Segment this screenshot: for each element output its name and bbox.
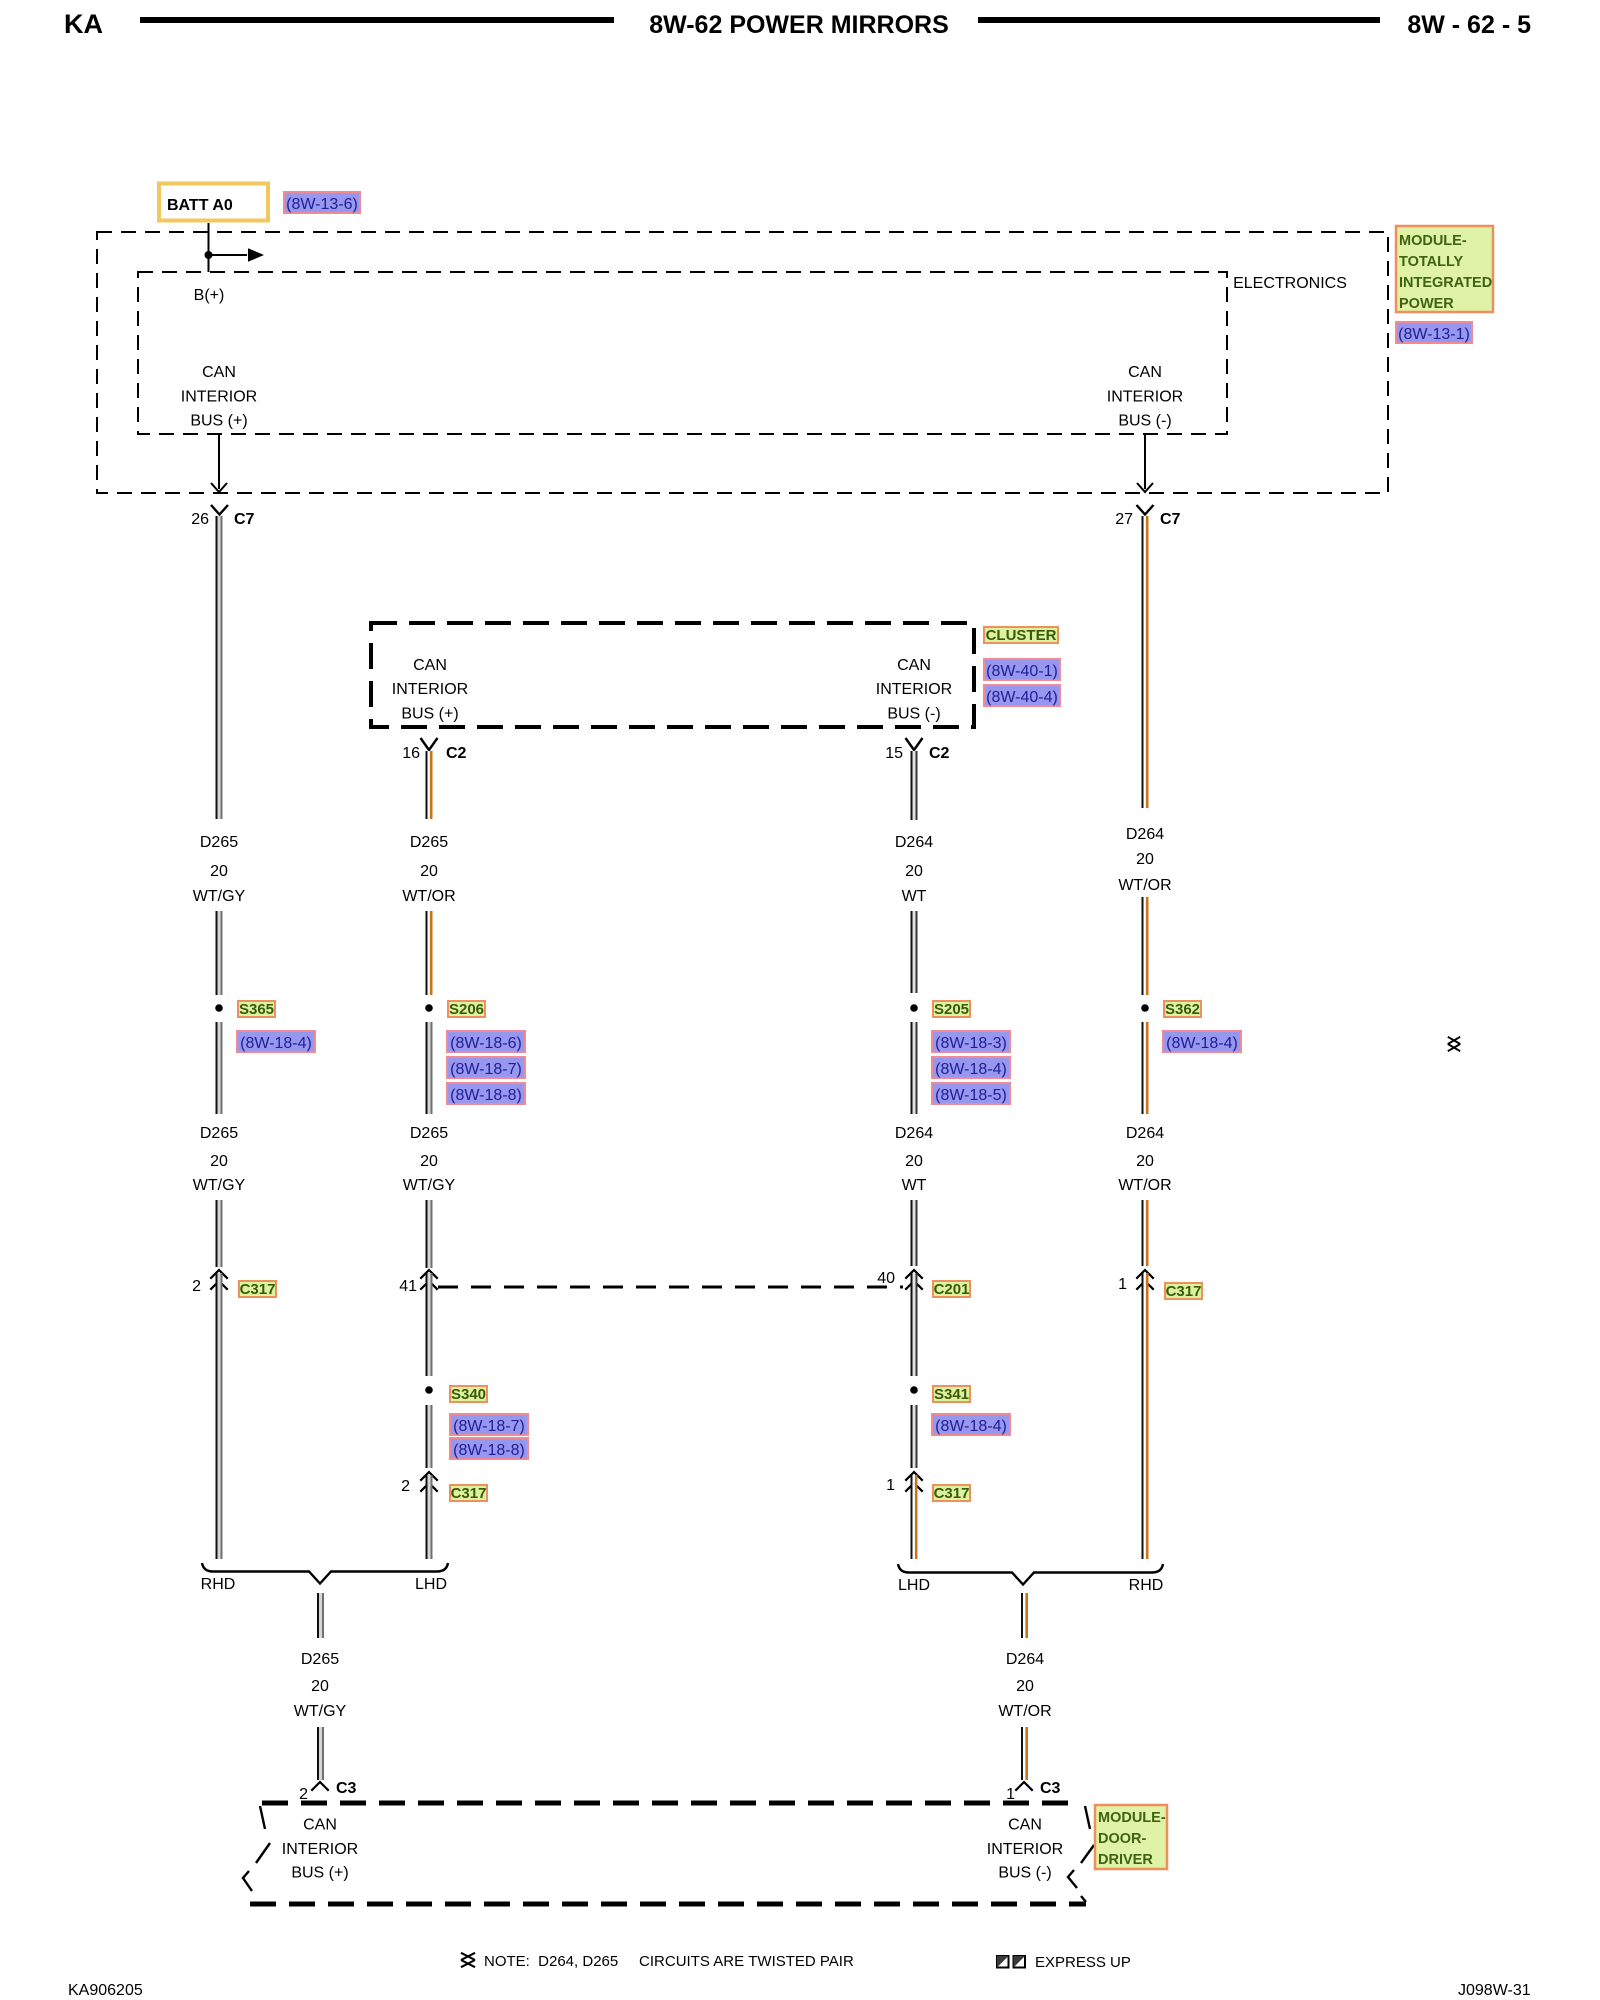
wire label D265 20 WT/GY col1 upper: [193, 834, 246, 905]
wire D264 WT col3 seg6: [911, 1405, 918, 1468]
svg-text:DRIVER: DRIVER: [1098, 1852, 1153, 1868]
svg-text:C3: C3: [336, 1780, 357, 1797]
svg-text:INTERIOR: INTERIOR: [181, 389, 257, 406]
wire label D265 20 WT/GY merged: [294, 1651, 347, 1720]
connector label C317 col1: [239, 1281, 276, 1298]
splice S205 node: [910, 1004, 918, 1012]
svg-text:C317: C317: [451, 1485, 487, 1502]
wire D265 WT/GY col2 seg6: [426, 1405, 433, 1468]
svg-text:BUS (+): BUS (+): [291, 1865, 348, 1882]
net label CAN INTERIOR BUS (+) TIPM: [181, 364, 257, 430]
svg-text:RHD: RHD: [1129, 1577, 1164, 1594]
connector C201 pin 41: [420, 1270, 437, 1290]
splice label S341: [933, 1386, 970, 1403]
svg-text:C317: C317: [934, 1485, 970, 1502]
bracket LHD/RHD merge right: [898, 1564, 1163, 1585]
svg-text:S205: S205: [934, 1001, 969, 1018]
svg-text:CLUSTER: CLUSTER: [986, 627, 1057, 644]
wire D265 WT/GY col1 seg2: [216, 911, 223, 995]
wire label D264 20 WT col3 upper: [895, 834, 933, 905]
wire D265 WT/GY col1 seg1: [216, 516, 223, 819]
arrow CAN bus (+) exit TIPM: [211, 434, 227, 492]
dashed connector line C201 pin41 to pin40: [438, 1286, 903, 1289]
wire D265 WT/GY merged seg1: [317, 1593, 324, 1638]
svg-text:CAN: CAN: [1128, 364, 1162, 381]
module door-driver torn left edge: [243, 1806, 270, 1891]
splice label S362: [1164, 1001, 1201, 1018]
svg-text:(8W-18-3): (8W-18-3): [935, 1035, 1007, 1052]
svg-text:EXPRESS UP: EXPRESS UP: [1035, 1954, 1131, 1971]
svg-text:(8W-18-4): (8W-18-4): [1166, 1035, 1238, 1052]
splice S341 node: [910, 1386, 918, 1394]
svg-text:WT/OR: WT/OR: [1118, 877, 1171, 894]
wire D264 WT/OR col3 seg7: [911, 1475, 918, 1559]
reference label (8W-18-4) S205: [932, 1057, 1010, 1078]
wire D264 WT col3 seg4: [911, 1200, 918, 1266]
reference label (8W-18-8) S206: [447, 1083, 525, 1104]
splice S362 node: [1141, 1004, 1149, 1012]
svg-text:20: 20: [905, 1153, 923, 1170]
module CLUSTER dashed box: [371, 623, 974, 727]
wire D265 WT/GY merged seg2: [317, 1727, 324, 1780]
svg-text:41: 41: [399, 1278, 417, 1295]
svg-text:(8W-18-8): (8W-18-8): [450, 1087, 522, 1104]
svg-text:1: 1: [1006, 1786, 1015, 1803]
header rule right: [978, 17, 1380, 23]
twisted pair symbol footer note: [461, 1953, 475, 1967]
module TIPM outer dashed box: [97, 232, 1388, 493]
svg-text:8W-62 POWER MIRRORS: 8W-62 POWER MIRRORS: [649, 11, 949, 39]
svg-text:BUS (+): BUS (+): [401, 706, 458, 723]
svg-text:WT/GY: WT/GY: [193, 1177, 246, 1194]
svg-text:S362: S362: [1165, 1001, 1200, 1018]
net label CAN INTERIOR BUS (-) door module: [987, 1817, 1063, 1882]
svg-text:D264: D264: [1006, 1651, 1044, 1668]
svg-text:D264: D264: [1126, 1125, 1164, 1142]
svg-text:(8W-18-5): (8W-18-5): [935, 1087, 1007, 1104]
svg-text:CAN: CAN: [1008, 1817, 1042, 1834]
module label MODULE-DOOR-DRIVER: [1095, 1805, 1167, 1869]
wire D265 WT/GY col1 seg3: [216, 1022, 223, 1114]
svg-text:1: 1: [886, 1477, 895, 1494]
connector label C201: [933, 1281, 970, 1298]
svg-text:(8W-18-7): (8W-18-7): [453, 1418, 525, 1435]
svg-text:2: 2: [299, 1786, 308, 1803]
connector C317 pin 2 col2: [420, 1472, 437, 1492]
svg-text:C3: C3: [1040, 1780, 1061, 1797]
svg-text:WT/OR: WT/OR: [402, 888, 455, 905]
svg-text:CAN: CAN: [413, 657, 447, 674]
junction node on B(+) feed: [205, 251, 213, 259]
wire D264 WT col3 seg1: [911, 751, 918, 820]
svg-text:POWER: POWER: [1399, 296, 1454, 312]
wire D265 WT/OR col2 seg1: [426, 751, 433, 819]
svg-text:C7: C7: [234, 511, 255, 528]
splice label S340: [450, 1386, 487, 1403]
svg-text:20: 20: [905, 863, 923, 880]
svg-text:BUS (-): BUS (-): [1118, 413, 1171, 430]
svg-text:D265: D265: [410, 834, 448, 851]
reference label (8W-40-4): [984, 685, 1060, 706]
svg-text:1: 1: [1118, 1276, 1127, 1293]
svg-text:KA: KA: [64, 9, 103, 39]
svg-text:TOTALLY: TOTALLY: [1399, 254, 1464, 270]
svg-text:CAN: CAN: [897, 657, 931, 674]
module door-driver torn right edge: [1068, 1806, 1094, 1902]
svg-text:C317: C317: [1166, 1283, 1202, 1300]
svg-text:2: 2: [192, 1278, 201, 1295]
wire D264 WT/OR col4 seg2: [1142, 897, 1149, 995]
wire D264 WT/OR col4 seg3: [1142, 1022, 1149, 1114]
svg-text:C2: C2: [446, 745, 467, 762]
wire D264 WT/OR merged seg2: [1021, 1727, 1028, 1780]
net label CAN INTERIOR BUS (+) cluster: [392, 657, 468, 723]
svg-text:C201: C201: [934, 1281, 970, 1298]
wire label D265 20 WT/OR col2 upper: [402, 834, 455, 905]
connector C7 pin 27: [1137, 505, 1154, 515]
svg-text:NOTE: D264, D265 CIRCUITS: NOTE: D264, D265 CIRCUITS ARE TWISTED PA…: [484, 1953, 854, 1970]
express up symbol squares: [997, 1956, 1025, 1968]
connector label C317 col4: [1165, 1283, 1202, 1300]
connector C2 pin 16: [421, 738, 438, 750]
wire D264 WT/OR col4 seg1: [1142, 516, 1149, 808]
reference label (8W-13-1): [1396, 322, 1472, 343]
svg-text:(8W-18-8): (8W-18-8): [453, 1442, 525, 1459]
svg-text:D264: D264: [895, 1125, 933, 1142]
svg-text:B(+): B(+): [194, 287, 225, 304]
svg-text:20: 20: [311, 1678, 329, 1695]
svg-text:KA906205: KA906205: [68, 1982, 143, 1999]
net label CAN INTERIOR BUS (-) cluster: [876, 657, 952, 723]
svg-text:S365: S365: [239, 1001, 274, 1018]
svg-text:(8W-18-7): (8W-18-7): [450, 1061, 522, 1078]
svg-text:2: 2: [401, 1478, 410, 1495]
svg-text:INTERIOR: INTERIOR: [1107, 389, 1183, 406]
svg-text:WT: WT: [902, 888, 927, 905]
net label CAN INTERIOR BUS (+) door module: [282, 1817, 358, 1882]
wire B(+) feed from BATT A0: [208, 223, 210, 272]
reference label (8W-18-6) S206: [447, 1031, 525, 1052]
svg-text:WT/GY: WT/GY: [403, 1177, 456, 1194]
module TIPM inner electronics dashed box: [138, 272, 1227, 434]
svg-text:(8W-40-4): (8W-40-4): [986, 689, 1058, 706]
svg-text:INTERIOR: INTERIOR: [282, 1841, 358, 1858]
wire D265 WT/GY col2 seg5: [426, 1273, 433, 1376]
reference label (8W-18-3) S205: [932, 1031, 1010, 1052]
svg-text:20: 20: [420, 863, 438, 880]
svg-text:BATT A0: BATT A0: [167, 197, 233, 214]
splice label S205: [933, 1001, 970, 1018]
reference label (8W-18-4) S341: [932, 1414, 1010, 1435]
module label MODULE-TOTALLY INTEGRATED POWER: [1396, 226, 1493, 312]
reference label (8W-18-5) S205: [932, 1083, 1010, 1104]
reference label (8W-18-7) S340: [450, 1414, 528, 1435]
svg-text:WT/OR: WT/OR: [998, 1703, 1051, 1720]
svg-text:8W - 62 - 5: 8W - 62 - 5: [1407, 11, 1531, 39]
svg-text:16: 16: [402, 745, 420, 762]
connector C317 pin 1 col3: [905, 1472, 922, 1492]
reference label (8W-18-4) S362: [1163, 1031, 1241, 1052]
wire D265 WT/GY col2 seg3: [426, 1022, 433, 1114]
module label CLUSTER: [984, 627, 1058, 644]
wire D264 WT/OR col4 seg5: [1142, 1273, 1149, 1559]
splice S340 node: [425, 1386, 433, 1394]
wire D265 WT/OR col2 seg2: [426, 911, 433, 995]
connector C3 pin 2: [311, 1782, 328, 1791]
svg-text:20: 20: [1136, 1153, 1154, 1170]
wire D264 WT col3 seg2: [911, 911, 918, 993]
svg-text:J098W-31: J098W-31: [1458, 1982, 1531, 1999]
svg-text:INTERIOR: INTERIOR: [392, 681, 468, 698]
splice S206 node: [425, 1004, 433, 1012]
splice S365 node: [215, 1004, 223, 1012]
wire D265 WT/GY col2 seg4: [426, 1200, 433, 1268]
wire D264 WT col3 seg5: [911, 1273, 918, 1376]
wire D264 WT/OR merged seg1: [1021, 1593, 1028, 1638]
svg-text:(8W-40-1): (8W-40-1): [986, 663, 1058, 680]
svg-text:RHD: RHD: [201, 1576, 236, 1593]
reference label (8W-13-6): [284, 192, 360, 213]
svg-text:S206: S206: [449, 1001, 484, 1018]
svg-text:(8W-13-1): (8W-13-1): [1398, 326, 1470, 343]
connector label C317 col3: [933, 1485, 970, 1502]
svg-text:BUS (+): BUS (+): [190, 413, 247, 430]
svg-text:BUS (-): BUS (-): [887, 706, 940, 723]
connector C7 pin 26: [211, 505, 228, 515]
svg-text:WT/GY: WT/GY: [193, 888, 246, 905]
svg-text:D264: D264: [895, 834, 933, 851]
svg-text:C317: C317: [240, 1281, 276, 1298]
svg-text:15: 15: [885, 745, 903, 762]
svg-text:ELECTRONICS: ELECTRONICS: [1233, 275, 1347, 292]
twisted pair symbol right margin: [1448, 1037, 1460, 1051]
svg-text:MODULE-: MODULE-: [1098, 1810, 1166, 1826]
net label CAN INTERIOR BUS (-) TIPM: [1107, 364, 1183, 430]
wire label D265 20 WT/GY col1 lower: [193, 1125, 246, 1194]
svg-text:C7: C7: [1160, 511, 1181, 528]
header rule left: [140, 17, 614, 23]
svg-text:DOOR-: DOOR-: [1098, 1831, 1147, 1847]
connector label C317 col2: [450, 1485, 487, 1502]
svg-text:(8W-18-4): (8W-18-4): [240, 1035, 312, 1052]
connector C317 pin 2 col1: [210, 1270, 227, 1290]
splice label S365: [238, 1001, 275, 1018]
wire label D264 20 WT/OR merged: [998, 1651, 1051, 1720]
wire D264 WT/OR col4 seg4: [1142, 1200, 1149, 1266]
splice label S206: [448, 1001, 485, 1018]
svg-text:LHD: LHD: [415, 1576, 447, 1593]
svg-text:20: 20: [1016, 1678, 1034, 1695]
reference label (8W-18-8) S340: [450, 1438, 528, 1459]
connector C2 pin 15: [906, 738, 923, 750]
svg-text:MODULE-: MODULE-: [1399, 233, 1467, 249]
svg-text:INTERIOR: INTERIOR: [987, 1841, 1063, 1858]
battery feed box BATT A0: [159, 184, 268, 221]
svg-text:D265: D265: [200, 834, 238, 851]
svg-text:BUS (-): BUS (-): [998, 1865, 1051, 1882]
svg-text:C2: C2: [929, 745, 950, 762]
svg-text:(8W-18-4): (8W-18-4): [935, 1418, 1007, 1435]
reference label (8W-18-7) S206: [447, 1057, 525, 1078]
svg-text:CAN: CAN: [303, 1817, 337, 1834]
module door-driver dashed box top edge: [262, 1801, 1080, 1806]
svg-text:26: 26: [191, 511, 209, 528]
svg-text:20: 20: [210, 863, 228, 880]
svg-text:(8W-13-6): (8W-13-6): [286, 196, 358, 213]
reference label (8W-40-1): [984, 659, 1060, 680]
svg-text:27: 27: [1115, 511, 1133, 528]
svg-text:CAN: CAN: [202, 364, 236, 381]
module door-driver dashed box bottom edge: [250, 1902, 1086, 1907]
arrow CAN bus (-) exit TIPM: [1137, 434, 1153, 492]
svg-text:S341: S341: [934, 1386, 969, 1403]
wire label D264 20 WT col3 lower: [895, 1125, 933, 1194]
wire D265 WT/GY col2 seg7: [426, 1475, 433, 1559]
svg-text:(8W-18-4): (8W-18-4): [935, 1061, 1007, 1078]
svg-text:WT/OR: WT/OR: [1118, 1177, 1171, 1194]
bracket RHD/LHD merge left: [202, 1563, 448, 1584]
svg-text:WT: WT: [902, 1177, 927, 1194]
svg-text:40: 40: [877, 1270, 895, 1287]
wire D265 WT/GY col1 seg4: [216, 1200, 223, 1267]
svg-text:(8W-18-6): (8W-18-6): [450, 1035, 522, 1052]
svg-text:D264: D264: [1126, 826, 1164, 843]
reference label (8W-18-4) S365: [237, 1031, 315, 1052]
connector C3 pin 1: [1015, 1782, 1032, 1791]
svg-text:D265: D265: [200, 1125, 238, 1142]
svg-text:INTERIOR: INTERIOR: [876, 681, 952, 698]
svg-text:20: 20: [210, 1153, 228, 1170]
svg-text:INTEGRATED: INTEGRATED: [1399, 275, 1492, 291]
connector C317 pin 1 col4: [1136, 1270, 1153, 1290]
wire label D264 20 WT/OR col4 lower: [1118, 1125, 1171, 1194]
wire D264 WT col3 seg3: [911, 1022, 918, 1114]
svg-text:D265: D265: [301, 1651, 339, 1668]
svg-text:20: 20: [1136, 851, 1154, 868]
svg-text:WT/GY: WT/GY: [294, 1703, 347, 1720]
wire label D265 20 WT/GY col2 lower: [403, 1125, 456, 1194]
arrow B(+) distribution: [208, 248, 264, 262]
wire D265 WT/GY col1 seg5: [216, 1273, 223, 1559]
wire label D264 20 WT/OR col4 upper: [1118, 826, 1171, 894]
svg-text:20: 20: [420, 1153, 438, 1170]
connector C201 pin 40: [905, 1270, 922, 1290]
svg-text:D265: D265: [410, 1125, 448, 1142]
svg-text:LHD: LHD: [898, 1577, 930, 1594]
svg-text:S340: S340: [451, 1386, 486, 1403]
